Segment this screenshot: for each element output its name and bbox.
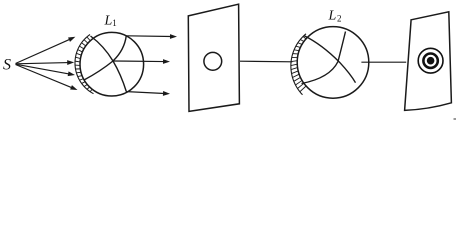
aperture screen (188, 4, 239, 111)
ray 3 from S (16, 64, 70, 74)
image: outer ring (418, 48, 443, 73)
aperture hole (204, 52, 222, 70)
svg-text:2: 2 (337, 14, 342, 24)
lens L2 surface arc B (top-right to lower-left) (302, 32, 346, 84)
lens L1 rim hatching (75, 37, 92, 92)
lens L2 surface arc A (upper-left to lower-right) (304, 36, 356, 83)
lens L2 rim crescent outer edge (291, 34, 306, 95)
ray 4 from S (16, 65, 73, 88)
parallel ray 2 from L1 (113, 60, 165, 63)
lens L1 surface arc B (top-right to lower-left) (84, 36, 126, 81)
image: middle ring (423, 54, 437, 68)
lens L2 body circle (297, 27, 369, 99)
ray 1 from S (16, 39, 71, 63)
image screen (405, 12, 452, 111)
ray 2 from S (16, 63, 69, 64)
lens L1 surface arc A (upper-left to lower-right) (91, 36, 127, 92)
axis wire: L2 to image screen (361, 61, 406, 63)
svg-text:1: 1 (112, 18, 117, 28)
lens L1 body circle (80, 32, 144, 96)
svg-text:L: L (328, 9, 337, 24)
svg-text:L: L (104, 14, 113, 29)
axis wire: aperture to L2 (240, 60, 292, 63)
parallel ray 3 from L1 (126, 92, 165, 94)
svg-text:S: S (3, 57, 11, 74)
page corner mark (454, 118, 456, 120)
lens L2 rim hatching (291, 37, 306, 92)
lens L1 rim crescent outer edge (75, 35, 94, 94)
image: center dot (427, 57, 435, 65)
parallel ray 1 from L1 (127, 35, 172, 38)
